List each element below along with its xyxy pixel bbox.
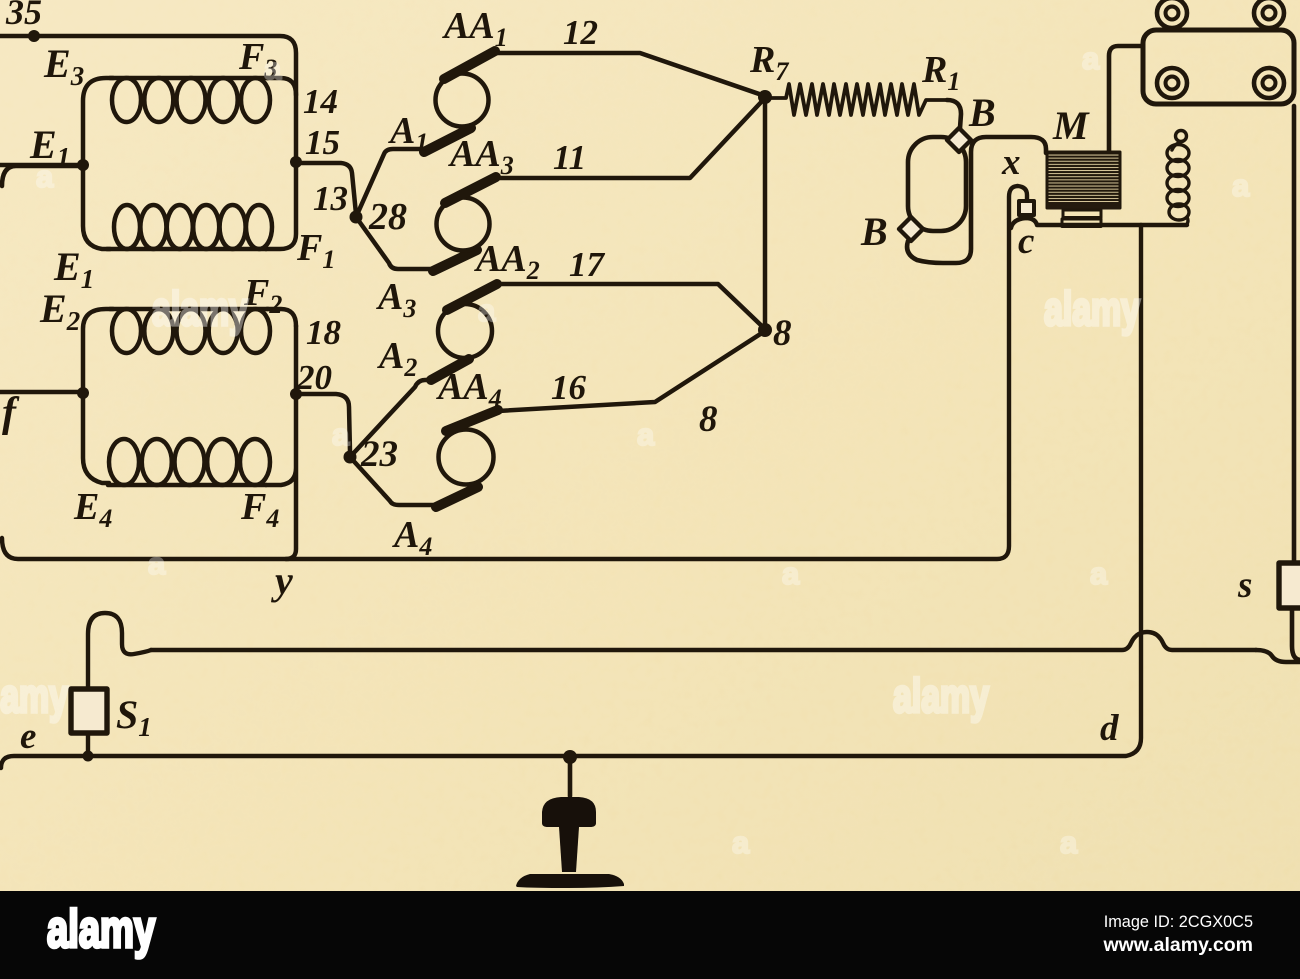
junction dot node 20 [290, 388, 302, 400]
svg-text:d: d [1100, 708, 1119, 749]
wire d vertical joining wire e [1, 225, 1141, 768]
svg-text:x: x [1001, 142, 1021, 183]
junction dot node 28 [350, 211, 363, 224]
junction dot E1 left [77, 159, 89, 171]
junction dot node R7 [758, 90, 772, 104]
coil F4 secondary bottom connector [108, 483, 266, 488]
wire R7 to node 8 vertical [763, 97, 768, 330]
svg-text:17: 17 [569, 245, 606, 284]
wire from e to rail [568, 758, 573, 796]
node 15 wire from box to node 28 [296, 163, 356, 214]
magnet coil (helix) right of motor [1176, 131, 1187, 142]
junction dot node 23 [344, 451, 357, 464]
solenoid circle AA3 [437, 198, 490, 251]
contact spring c and wire to coil [1011, 218, 1187, 228]
terminal post 4 [1254, 68, 1284, 98]
svg-text:a: a [478, 293, 496, 328]
wire from lower contact B to motor M [907, 137, 1046, 263]
svg-text:www.alamy.com: www.alamy.com [1102, 934, 1253, 956]
relay terminal box top right [1143, 30, 1294, 104]
switch blade AA2 upper (thick) [447, 284, 497, 310]
switch blade AA3 upper (thick) [445, 177, 496, 203]
svg-text:a: a [1082, 41, 1100, 76]
wire 11 to node R7 [497, 98, 765, 178]
reverser loop B (rounded rectangle) [908, 137, 966, 231]
terminal post 1 [1157, 0, 1187, 28]
switch blade AA1 upper (thick) [444, 51, 495, 79]
svg-text:28: 28 [368, 196, 407, 238]
wire from terminal box down to motor M [1109, 46, 1143, 152]
svg-text:a: a [332, 417, 350, 452]
terminal post 2 [1254, 0, 1284, 28]
solenoid circle AA1 [436, 74, 489, 127]
wire 12 to node R7 [497, 53, 765, 96]
switch blade A3 lower (thick) [433, 250, 477, 271]
svg-text:16: 16 [551, 368, 587, 407]
svg-text:a: a [264, 51, 282, 86]
svg-text:12: 12 [563, 13, 598, 52]
wire R1 to contact B [947, 100, 961, 128]
wire 35 top bus with corner into transformer E3 right edge [0, 36, 296, 249]
junction dot on wire 35 [28, 30, 40, 42]
wire from terminal box down right edge to fuse S [1292, 106, 1297, 563]
svg-text:alamy: alamy [1044, 283, 1140, 336]
transformer E3/F3 box left edge + top-left corner [2, 78, 113, 249]
fuse S1 [71, 689, 107, 733]
svg-text:a: a [732, 825, 750, 860]
switch blade A4 lower (thick) [436, 487, 478, 507]
svg-text:B: B [968, 90, 996, 135]
motor pedestal [1063, 210, 1101, 218]
svg-text:M: M [1052, 103, 1090, 148]
resistor R1 zigzag [765, 84, 947, 115]
rail cross-section (solid) [516, 797, 624, 888]
svg-text:a: a [1060, 825, 1078, 860]
contact square x [1019, 201, 1034, 215]
bottom black bar [0, 891, 1300, 979]
svg-text:18: 18 [306, 313, 341, 352]
svg-text:15: 15 [305, 123, 340, 162]
svg-text:alamy: alamy [47, 899, 155, 959]
svg-text:13: 13 [313, 179, 348, 218]
svg-text:alamy: alamy [893, 670, 989, 723]
junction dot rail tap on wire e [563, 750, 577, 764]
svg-text:a: a [782, 556, 800, 591]
transformer E2/F2 box left edge and top [83, 309, 296, 483]
wire E1 feed [0, 163, 83, 168]
svg-text:alamy: alamy [0, 670, 68, 723]
transformer E2 bottom edge into right edge, down to wire y [266, 326, 296, 559]
coil F4 secondary (bottom row, 5 loops) [109, 439, 139, 485]
svg-text:20: 20 [296, 358, 332, 397]
junction dot node 8 [758, 323, 772, 337]
terminal post 3 [1157, 68, 1187, 98]
svg-text:a: a [36, 159, 54, 194]
motor M armature (hatched block) [1047, 152, 1120, 208]
svg-text:s: s [1237, 565, 1252, 606]
wire A3 from node 28 [356, 217, 433, 269]
svg-text:Image ID: 2CGX0C5: Image ID: 2CGX0C5 [1104, 913, 1253, 931]
svg-text:a: a [637, 417, 655, 452]
wire 16 to node 8 [498, 331, 765, 411]
node 20 wire down to node 23 [296, 394, 350, 452]
switch blade AA4 upper (thick) [446, 410, 498, 431]
fuse S at right edge [1279, 563, 1300, 608]
coil F1 secondary bottom connector [107, 247, 266, 252]
svg-text:c: c [1018, 221, 1034, 262]
svg-text:a: a [1232, 168, 1250, 203]
svg-text:8: 8 [773, 313, 792, 354]
svg-text:14: 14 [303, 82, 338, 121]
wire y long horizontal, rising to contact x [2, 186, 1027, 559]
junction dot S1 on wire e [83, 751, 94, 762]
svg-text:a: a [1090, 556, 1108, 591]
solenoid circle AA4 [439, 430, 494, 485]
contact diamond B lower [899, 217, 923, 241]
junction dot f / E2 [77, 387, 89, 399]
svg-text:alamy: alamy [152, 283, 248, 336]
switch blade A2 lower (thick) [431, 359, 469, 380]
wire f feed [0, 390, 83, 395]
svg-text:B: B [860, 209, 888, 254]
coil E3 primary top connector [110, 76, 268, 81]
alamy logo in bottom bar [47, 899, 155, 959]
svg-text:23: 23 [360, 434, 398, 475]
wire A4 from node 23 [350, 457, 436, 505]
hairpin wire above fuse S1 [88, 613, 151, 689]
svg-text:y: y [271, 558, 293, 603]
wire A2 from node 23 [350, 380, 432, 457]
solenoid circle AA2 [438, 304, 492, 358]
svg-text:11: 11 [553, 138, 586, 177]
wire S1 to e [86, 733, 90, 756]
transformer E3 top edge right section [267, 78, 296, 95]
switch blade A1 lower (thick) [424, 128, 471, 152]
coil E3 primary (top row, 5 loops) [112, 78, 141, 122]
coil F1 secondary (bottom row, 6 loops) [114, 205, 140, 249]
long wire from fuse S1 hairpin to fuse S (hops over wire d) [151, 632, 1256, 650]
wire A1 from node 28 [356, 149, 424, 217]
wire 17 to node 8 [498, 284, 765, 329]
coil E2 primary (top row, 5 loops) [112, 309, 141, 353]
svg-text:8: 8 [699, 399, 718, 440]
coil E2 primary top connector [110, 307, 268, 312]
contact diamond B upper [947, 128, 971, 152]
svg-text:a: a [148, 546, 166, 581]
svg-text:35: 35 [5, 0, 42, 32]
junction dot node 15 [290, 156, 302, 168]
